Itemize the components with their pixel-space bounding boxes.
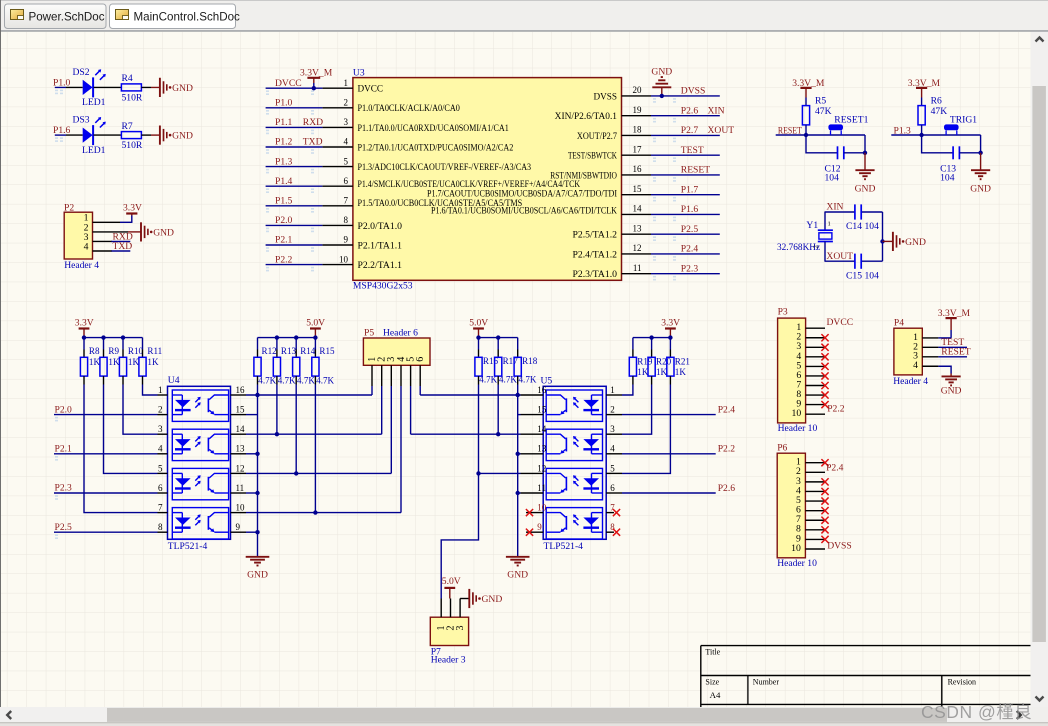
wire U5 bus to GND [516,385,520,557]
wire [805,125,807,135]
svg-text:R15: R15 [319,346,335,356]
svg-text:Header 10: Header 10 [778,423,818,434]
svg-text:16: 16 [537,385,547,395]
connector P5 Header 6 [363,328,430,366]
svg-text:4.7K: 4.7K [316,375,334,385]
U5 pin 16 [521,385,547,395]
resistor R16 4.7K [475,338,499,385]
svg-text:10: 10 [537,503,547,513]
svg-text:104: 104 [825,172,840,183]
capacitor C12 104 [806,135,865,183]
resistor R14 4.7K [293,338,316,386]
U5 channel 1 [546,390,602,421]
svg-text:3.3V: 3.3V [123,202,142,213]
U4 channel 4 [172,508,228,539]
U5 pin 10 [526,503,547,513]
wire / net label P2.4 [651,244,720,261]
P7 pin3 wire to ground [460,598,469,600]
svg-text:Number: Number [753,677,780,686]
U5 channel 2 [546,429,602,460]
resistor R18 4.7K [514,338,538,385]
wire power bus [476,335,517,339]
wire R14 column [295,385,297,474]
U3 pin 9 [322,235,402,251]
wire / net label RESET [651,165,720,182]
tab bar [0,0,1048,31]
svg-text:R21: R21 [675,357,690,367]
net label P2.1 / wire [54,444,158,461]
P4 pin1 wire to 3.3V_M [922,337,938,339]
net label P2.4 / wire [622,405,735,416]
U4 pin 3 [158,424,168,434]
U4 pin 4 [158,444,168,454]
resistor R20 1K [648,338,672,385]
U3 pin 16 [550,164,651,180]
U3 pin 13 [573,223,652,239]
svg-text:P1.7/CAOUT/UCB0SIMO/UCB0SDA/A7: P1.7/CAOUT/UCB0SIMO/UCB0SDA/A7/CA7/TDO/T… [427,189,617,199]
svg-text:7: 7 [158,503,163,513]
no-connect X [821,334,828,341]
svg-text:P1.6: P1.6 [681,204,699,215]
svg-text:TXD: TXD [303,137,323,148]
svg-text:MSP430G2x53: MSP430G2x53 [353,281,413,292]
svg-text:R9: R9 [108,346,119,356]
wire [980,135,982,153]
svg-text:LED1: LED1 [82,97,106,108]
svg-text:DVCC: DVCC [827,317,854,328]
svg-text:P2.2: P2.2 [718,444,736,455]
U5 pin 3 [606,424,622,434]
wire U4 pin11 to bus [246,492,258,494]
svg-text:9: 9 [344,235,349,245]
svg-text:P1.3: P1.3 [275,156,293,167]
no-connect X [821,459,828,466]
svg-text:3: 3 [455,626,466,631]
resistor R10 1K [119,338,143,385]
resistor R19 1K [629,338,653,385]
svg-text:10: 10 [339,254,349,264]
wire [55,134,66,136]
wire / net label P2.5 [651,224,720,241]
svg-text:P1.5: P1.5 [275,196,293,207]
svg-text:P2.2: P2.2 [827,403,845,414]
no-connect X [821,353,828,360]
U5 pin 8 [606,522,615,532]
P5 pin 3 [390,365,392,386]
U3 pin 4 [322,137,513,153]
svg-text:R4: R4 [122,73,133,84]
wire [776,134,865,136]
connector P7 Header 3 [430,617,468,665]
resistor R9 1K [100,338,120,385]
svg-text:12: 12 [236,463,245,473]
P3 pin 9 [806,404,825,406]
wire [141,86,151,88]
U5 pin 15 [521,405,547,415]
U4 pin 9 [231,522,247,532]
svg-text:9: 9 [236,522,241,532]
U5 pin 1 [606,385,622,395]
U3 pin 20 [594,85,652,101]
tab MainControl.SchDoc (active) [110,4,236,29]
resistor R17 4.7K [495,338,519,385]
wire / net label P2.0 [266,215,323,232]
svg-text:6: 6 [158,483,163,493]
U5 pin 9 [526,522,543,532]
svg-text:XOUT: XOUT [708,125,735,136]
svg-text:6: 6 [415,357,426,362]
svg-text:R10: R10 [128,346,144,356]
wire P5 pin6 to U5 pin16 [420,386,520,397]
wire / net label P1.0 [266,98,323,115]
no-connect X [821,382,828,389]
wire / net label P1.1 [266,117,324,134]
U5 pin 6 [606,483,622,493]
U5 channel 3 [546,468,602,499]
svg-text:XIN: XIN [708,105,725,116]
ground [160,126,193,145]
crystal Y1 32.768KHz [777,220,833,253]
svg-text:P1.2: P1.2 [275,137,293,148]
svg-text:P2.2/TA1.1: P2.2/TA1.1 [358,260,403,270]
U4 pin 12 [231,463,247,473]
U3 pin 11 [573,263,652,279]
svg-text:P2.4: P2.4 [826,463,844,474]
connector P2 Header 4 [64,202,99,271]
ground [941,374,962,397]
P6 pin 4 [805,490,825,492]
wire / net label TEST [651,145,720,162]
U4 pin 6 [158,483,168,493]
U4 pin 1 [158,385,168,395]
U3 pin 15 [622,184,652,195]
wire R11 to U4 pin1 [143,385,158,396]
svg-text:P2.1: P2.1 [55,444,73,455]
P6 pin 1 [805,462,825,464]
P3 pin 1 [806,327,825,329]
svg-text:3: 3 [344,117,349,127]
svg-text:1K: 1K [147,357,159,367]
svg-text:1: 1 [158,385,163,395]
P3 pin 4 [806,356,825,358]
svg-text:47K: 47K [931,106,948,117]
svg-text:Power.SchDoc: Power.SchDoc [29,10,105,23]
svg-text:3.3V: 3.3V [75,318,94,329]
wire [141,134,151,136]
svg-text:P2.6: P2.6 [718,483,736,494]
connector P3 Header 10 [778,307,818,435]
svg-text:P6: P6 [777,442,787,453]
P3 pin 10 [806,413,825,415]
optocoupler U5 TLP521-4 [541,375,607,552]
svg-text:P1.3/ADC10CLK/CAOUT/VREF-/VERE: P1.3/ADC10CLK/CAOUT/VREF-/VEREF-/A3/CA3 [358,162,532,172]
capacitor C15 104 [846,254,879,282]
svg-text:GND: GND [941,385,962,396]
wire P5 pin5 to U5 pin14 [411,386,521,436]
svg-text:GND: GND [855,183,876,194]
svg-text:R19: R19 [637,357,653,367]
power port 3.3V_M (TRIG1) [908,78,941,97]
wire / net label P2.6 XIN [651,105,725,122]
svg-text:1K: 1K [128,357,140,367]
svg-text:9: 9 [537,522,542,532]
svg-text:GND: GND [247,570,268,581]
svg-text:P1.0: P1.0 [275,98,293,109]
P4 pin4 wire to GND [922,365,938,367]
U3 pin 10 [322,254,402,270]
P5 pin 6 [419,365,421,386]
svg-text:1K: 1K [656,367,668,377]
resistor R6 47K [918,96,947,125]
wire U4 emitter bus to GND [255,385,259,557]
svg-text:11: 11 [236,483,245,493]
svg-text:LED1: LED1 [82,145,106,156]
svg-text:510R: 510R [122,92,143,103]
svg-text:4: 4 [610,444,615,454]
svg-text:P1.4: P1.4 [275,176,293,187]
U4 pin 14 [231,424,247,434]
wire / net label P2.1 [266,235,323,252]
no-connect X [613,529,620,536]
svg-text:TEST/SBWTCK: TEST/SBWTCK [568,151,617,161]
svg-text:1K: 1K [89,357,101,367]
P6 pin 6 [805,510,825,512]
svg-text:P2.5: P2.5 [681,224,699,235]
svg-text:R18: R18 [522,356,538,366]
power port 3.3V_M (RESET1) [792,78,825,97]
U3 pin 7 [322,196,522,209]
wire / net label P2.3 [651,263,720,280]
svg-text:18: 18 [633,125,643,135]
svg-text:16: 16 [633,164,643,174]
U5 pin 14 [521,424,547,434]
svg-text:12: 12 [537,463,546,473]
U3 pin 19 [555,105,651,121]
U5 channel 4 [546,508,602,539]
svg-text:DVCC: DVCC [358,84,384,94]
pin 3 wire [93,240,113,242]
no-connect X [821,497,828,504]
P6 pin 5 [805,500,825,502]
wire [891,134,980,136]
wire U4 pin14 to P5 pin2 [246,386,382,436]
wire U4 pin9 to bus [246,531,258,533]
net label P2.3 / wire [54,483,158,500]
power port 3.3V_M at U3 pin1 [300,67,333,90]
svg-text:104: 104 [865,221,880,232]
no-connect X [821,401,828,408]
power port 3.3V [123,202,142,215]
svg-text:Size: Size [705,677,719,686]
svg-text:P1.1/TA0.0/UCA0RXD/UCA0SOMI/A1: P1.1/TA0.0/UCA0RXD/UCA0SOMI/A1/CA1 [358,123,510,133]
svg-text:R7: R7 [122,121,133,132]
svg-text:P2.4/TA1.2: P2.4/TA1.2 [573,249,618,259]
P6 pin 8 [805,529,825,531]
U3 pin 8 [322,215,402,231]
no-connect X [821,517,828,524]
svg-text:5: 5 [344,156,349,166]
wire R16 to U5 pin12 and P7 pin1 [441,385,520,599]
resistor R12 4.7K [254,338,277,386]
svg-text:1K: 1K [108,357,120,367]
svg-text:Header 6: Header 6 [383,328,418,339]
resistor R15 4.7K [312,338,335,386]
pushbutton RESET1 [828,114,868,135]
wire / net label P2.7 XOUT [651,125,734,142]
svg-text:12: 12 [633,243,642,253]
wire U5 pin15 to bus [518,414,521,416]
wire U5 pin1 to R19 [622,385,633,396]
no-connect X [821,507,828,514]
pin 2 wire [93,231,129,233]
svg-text:P2.0: P2.0 [275,215,293,226]
wire power bus [82,335,143,339]
net label TEST / wire [922,337,967,348]
pushbutton TRIG1 [944,114,977,135]
svg-text:1K: 1K [637,367,649,377]
U4 pin 13 [231,444,247,454]
svg-text:15: 15 [633,184,643,194]
svg-text:Header 10: Header 10 [777,558,817,569]
svg-text:13: 13 [236,444,246,454]
svg-text:R11: R11 [147,346,162,356]
U5 pin 7 [606,503,615,513]
svg-text:P2.0/TA1.0: P2.0/TA1.0 [358,221,403,231]
ground [970,153,991,195]
U3 pin 2 [322,98,460,114]
svg-text:RESET1: RESET1 [834,114,868,125]
U3 pin 14 [622,204,652,215]
svg-text:DS2: DS2 [73,67,90,78]
wire / net label P1.7 [651,184,720,201]
svg-text:P2.3: P2.3 [55,483,73,494]
svg-text:P4: P4 [894,318,904,329]
svg-text:RST/NMI/SBWTDIO: RST/NMI/SBWTDIO [550,170,617,180]
svg-text:19: 19 [633,105,643,115]
svg-text:U4: U4 [168,375,180,386]
svg-text:A4: A4 [710,690,721,700]
wire power bus [258,335,318,339]
resistor R13 4.7K [273,338,296,386]
U5 pin 2 [606,405,622,415]
svg-text:Header 4: Header 4 [64,260,99,271]
svg-text:P2.0: P2.0 [55,404,73,415]
svg-text:4: 4 [158,444,163,454]
svg-text:P2.4: P2.4 [718,405,736,416]
svg-text:3.3V_M: 3.3V_M [300,67,333,78]
svg-text:R20: R20 [656,357,672,367]
wire U4 pin13 to bus [246,453,258,455]
U4 channel 2 [172,429,228,460]
svg-text:Header 4: Header 4 [893,376,928,387]
svg-text:P2.4: P2.4 [681,244,699,255]
bottom scrollbar [0,707,1031,723]
svg-text:15: 15 [537,405,547,415]
svg-text:P2.3: P2.3 [681,263,699,274]
svg-text:R14: R14 [300,346,316,356]
svg-text:104: 104 [865,270,880,281]
U4 pin 15 [231,405,247,415]
ground under U5 [506,557,530,581]
svg-text:14: 14 [633,204,643,214]
svg-text:TRIG1: TRIG1 [950,114,977,125]
wire XOUT [824,242,826,262]
svg-text:RESET: RESET [941,347,970,358]
svg-text:6: 6 [610,483,615,493]
wire / net label P1.2 [266,137,323,154]
P3 pin 5 [806,365,825,367]
net label P2.6 / wire [622,483,735,494]
P7 pin lines [440,599,442,618]
wire [864,135,866,153]
wire power bus [633,335,673,339]
svg-text:C14: C14 [846,221,862,232]
P3 pin 2 [806,337,825,339]
P6 pin 10 [805,548,825,550]
no-connect X [613,509,620,516]
svg-text:P2.5/TA1.2: P2.5/TA1.2 [573,230,618,240]
svg-text:5: 5 [610,463,615,473]
svg-text:GND: GND [482,594,503,605]
wire / net label DVSS [651,86,720,103]
wire U4 pin15 to bus [246,414,258,416]
P5 pin 4 [400,365,402,386]
svg-text:DVSS: DVSS [681,86,706,97]
svg-text:10: 10 [791,543,801,554]
pin 4 wire [93,250,113,252]
wire / net label P1.6 [651,204,720,221]
resistor R21 1K [667,338,690,385]
power port 3.3V [661,318,680,338]
resistor R11 1K [139,338,162,385]
svg-text:DVCC: DVCC [275,78,302,89]
wire [55,86,66,88]
U4 channel 3 [172,468,228,499]
svg-text:15: 15 [236,405,246,415]
svg-text:P1.6/TA0.1/UCB0SOMI/UCB0SCL/A6: P1.6/TA0.1/UCB0SOMI/UCB0SCL/A6/CA6/TDI/T… [431,206,617,216]
P6 pin 7 [805,519,825,521]
U4 pin 10 [231,503,247,513]
P3 pin 3 [806,346,825,348]
capacitor C14 104 [846,204,879,231]
svg-text:2: 2 [344,98,349,108]
U4 pin 2 [158,405,168,415]
ground [469,589,502,608]
power port 3.3V [75,318,94,338]
U5 pin 13 [521,444,547,454]
U3 pin 1 [322,78,383,94]
LED DS3 [66,115,106,156]
IC U3 MSP430G2x53 [353,68,622,292]
no-connect X [526,529,533,536]
svg-text:P2.6: P2.6 [681,105,699,116]
P3 pin 8 [806,394,825,396]
resistor R5 47K [802,96,831,125]
resistor R8 1K [80,338,100,385]
svg-text:Y1: Y1 [806,220,818,231]
net label RESET / wire [922,347,970,358]
wire [94,86,122,88]
svg-text:R12: R12 [262,346,278,356]
svg-text:DVSS: DVSS [827,540,852,551]
U3 pin 6 [322,176,580,189]
svg-text:XOUT/P2.7: XOUT/P2.7 [577,131,617,141]
wire / net label DVCC [266,78,323,95]
power port 3.3V_M [938,308,971,330]
svg-text:TEST: TEST [681,145,704,156]
wire R17 column [497,385,499,435]
resistor R4 510R [121,73,142,103]
